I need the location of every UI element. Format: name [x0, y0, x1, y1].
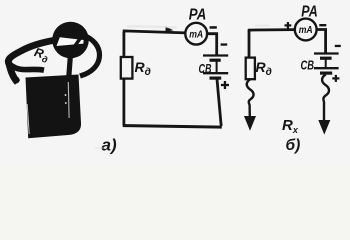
svg-text:mA: mA	[189, 29, 203, 40]
svg-text:б): б)	[286, 137, 301, 154]
svg-text:СВ: СВ	[301, 58, 315, 73]
svg-text:РА: РА	[301, 3, 318, 20]
svg-text:а): а)	[102, 136, 117, 155]
svg-text:mA: mA	[299, 25, 313, 36]
svg-text:СВ: СВ	[199, 61, 212, 76]
svg-text:РА: РА	[189, 7, 207, 24]
